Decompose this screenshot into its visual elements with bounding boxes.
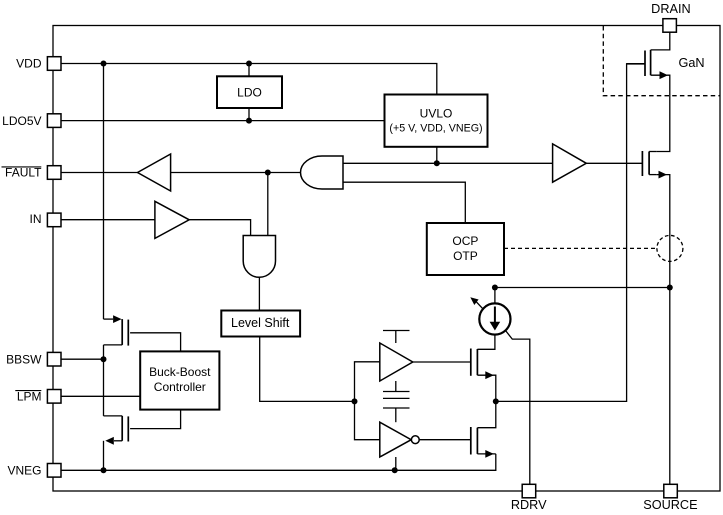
svg-text:UVLO: UVLO [420, 107, 453, 121]
svg-text:RDRV: RDRV [511, 498, 547, 512]
svg-text:VNEG: VNEG [7, 463, 41, 477]
svg-text:BBSW: BBSW [6, 352, 42, 366]
svg-text:VDD: VDD [16, 57, 42, 71]
svg-text:GaN: GaN [679, 56, 705, 70]
svg-text:Buck-Boost: Buck-Boost [149, 365, 211, 379]
svg-text:IN: IN [30, 212, 42, 226]
svg-text:OTP: OTP [453, 249, 478, 263]
svg-text:SOURCE: SOURCE [643, 498, 697, 512]
svg-text:LDO: LDO [237, 86, 262, 100]
svg-text:DRAIN: DRAIN [651, 2, 690, 16]
svg-text:Controller: Controller [154, 380, 206, 394]
svg-text:LPM: LPM [17, 389, 42, 403]
svg-text:LDO5V: LDO5V [2, 114, 41, 128]
svg-text:(+5 V, VDD, VNEG): (+5 V, VDD, VNEG) [389, 123, 482, 135]
svg-text:OCP: OCP [452, 234, 478, 248]
svg-text:Level Shift: Level Shift [231, 316, 290, 330]
